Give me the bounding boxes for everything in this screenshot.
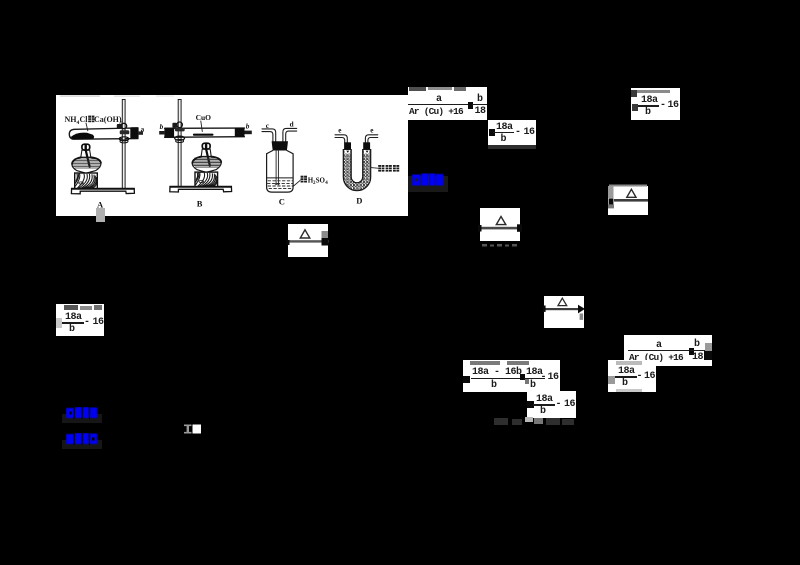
bent tube D right (365, 135, 377, 143)
stopper A (130, 127, 138, 138)
test tube A (69, 128, 138, 139)
U-tube with soda lime (343, 150, 370, 191)
small fragment: gray I + white box (184, 424, 201, 434)
faint smudges top edge (60, 95, 100, 97)
formula F1: a/(Ar(Cu)+16) x b/18 top (408, 87, 487, 120)
apparatus figure: white panel with setups A,B,C,D (56, 95, 408, 216)
tube d (283, 128, 297, 142)
lamp B cap (202, 143, 210, 149)
svg-text:D: D (356, 195, 362, 205)
lamp A body (72, 157, 101, 173)
formula F2: 18a/b - 16 (488, 120, 536, 145)
svg-text:Ca(OH): Ca(OH) (94, 115, 122, 124)
white pockets under stoppers (345, 150, 351, 154)
stand rod A (122, 100, 125, 189)
svg-text:b: b (246, 123, 250, 131)
bottle (267, 151, 294, 193)
solid in tube A (71, 133, 94, 139)
stopper B right (235, 128, 245, 137)
alcohol lamp A : cap (82, 144, 90, 150)
lamp B wood block (195, 172, 218, 187)
inner tube (276, 151, 278, 185)
stand base A (71, 188, 134, 193)
gray tab below label A of figure (96, 208, 105, 223)
svg-text:SO: SO (316, 176, 326, 184)
bottle stopper (272, 141, 288, 150)
delta D2 (480, 208, 520, 241)
bent tube D left (335, 135, 347, 143)
pointer to soda lime label (371, 167, 378, 170)
label NH4Cl + Ca(OH)2 (65, 115, 124, 127)
lamp A neck (81, 150, 91, 157)
svg-text:e: e (370, 126, 373, 134)
CJK glyph (he) (88, 116, 94, 123)
svg-text:d: d (290, 120, 294, 128)
blue link blob B3 (62, 440, 102, 449)
formula F4: 18a/b - 16 left (56, 304, 104, 336)
setup B : rod (178, 100, 181, 189)
formula F6: (18a-16b)/b . 18a/b -16 (463, 360, 560, 393)
lamp B body (192, 157, 221, 173)
svg-text:CuO: CuO (196, 113, 212, 122)
smudges under F8 (494, 415, 584, 427)
clamp B (177, 122, 183, 128)
tube c (262, 129, 276, 142)
svg-text:b: b (160, 123, 164, 131)
delta-arrow D4 (544, 296, 584, 329)
label jianshihui (3 CJK glyphs) (378, 165, 384, 172)
blue link blob B2 (62, 414, 102, 423)
svg-text:NH: NH (65, 115, 78, 124)
svg-text:a: a (141, 126, 145, 134)
formula F7: 18a/b - 16 (608, 360, 656, 393)
lamp A wood block (75, 173, 98, 189)
lamp B neck (201, 149, 211, 156)
svg-text:4: 4 (325, 181, 328, 186)
CuO strip (193, 134, 214, 136)
stopper B left (164, 128, 174, 138)
formula F5: a/(Ar(Cu)+16) x b/18 lower (624, 335, 712, 366)
svg-text:B: B (197, 199, 203, 209)
svg-text:e: e (338, 127, 341, 135)
svg-text:Cl: Cl (80, 115, 89, 124)
formula F8: 18a/b - 16 (527, 391, 576, 418)
blue link blob B1 (408, 176, 448, 192)
clamp A (121, 123, 126, 128)
delta D1: triangle over line (288, 224, 328, 257)
pointer to solid in tube A (86, 123, 88, 131)
formula F3: 18a/b - 16 top right (631, 88, 680, 120)
stand base B (170, 186, 232, 192)
liquid (267, 177, 294, 179)
delta D3 (608, 186, 648, 215)
tube B (165, 128, 245, 137)
pointer to label (294, 180, 301, 186)
svg-text:C: C (279, 196, 285, 206)
stoppers D (344, 142, 351, 149)
label nong H2SO4 (301, 176, 307, 183)
